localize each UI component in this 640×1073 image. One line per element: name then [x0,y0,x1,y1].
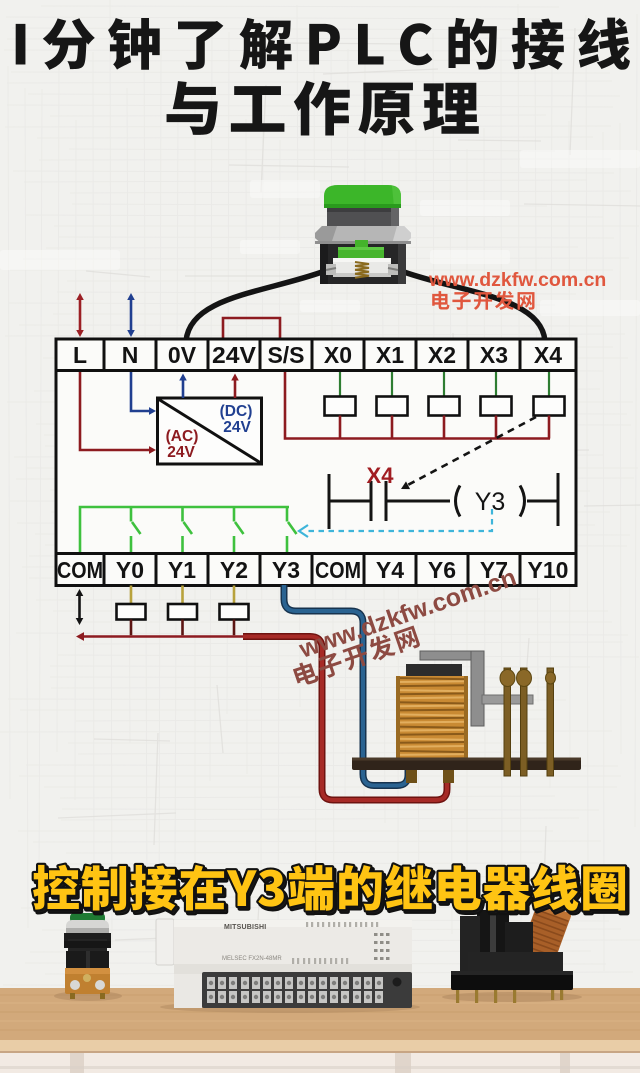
svg-text:COM: COM [57,557,103,583]
svg-text:Y2: Y2 [220,557,248,583]
svg-text:N: N [122,342,139,368]
svg-text:24V: 24V [223,419,251,436]
svg-text:Y4: Y4 [376,557,404,583]
svg-text:X1: X1 [376,342,404,368]
svg-text:S/S: S/S [267,342,304,368]
svg-text:X2: X2 [428,342,456,368]
svg-text:X4: X4 [534,342,562,368]
svg-text:Y3: Y3 [272,557,300,583]
svg-text:MELSEC FX2N-48MR: MELSEC FX2N-48MR [222,956,282,962]
svg-text:COM: COM [315,557,361,583]
svg-text:Y0: Y0 [116,557,144,583]
svg-text:Y10: Y10 [528,557,569,583]
svg-text:0V: 0V [168,342,197,368]
svg-text:X0: X0 [324,342,352,368]
svg-text:24V: 24V [212,342,257,368]
svg-text:Y6: Y6 [428,557,456,583]
svg-text:www.dzkfw.com.cn: www.dzkfw.com.cn [428,269,606,291]
svg-text:24V: 24V [167,444,195,461]
svg-text:X3: X3 [480,342,508,368]
svg-text:Y1: Y1 [168,557,196,583]
svg-text:X4: X4 [367,463,395,488]
svg-text:MITSUBISHI: MITSUBISHI [224,924,266,931]
svg-text:Y3: Y3 [475,488,506,516]
svg-text:(AC): (AC) [166,428,199,445]
svg-text:(DC): (DC) [220,403,253,420]
svg-text:L: L [73,342,87,368]
